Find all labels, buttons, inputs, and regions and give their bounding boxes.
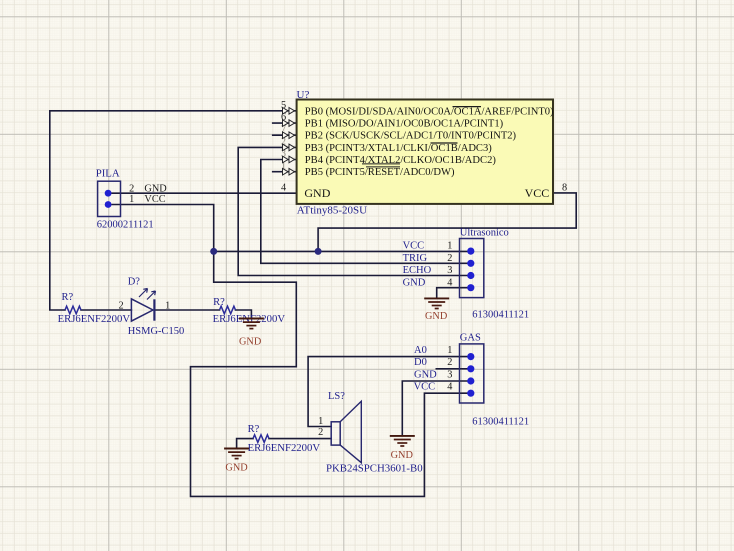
svg-text:3: 3 xyxy=(447,369,452,380)
svg-text:1: 1 xyxy=(447,241,452,252)
svg-text:4: 4 xyxy=(281,183,286,194)
pin circle GAS-1 xyxy=(467,353,474,360)
svg-text:D?: D? xyxy=(128,276,141,287)
svg-text:HSMG-C150: HSMG-C150 xyxy=(128,326,185,337)
connector GAS 61300411121 xyxy=(414,333,530,428)
pin circle US-1 xyxy=(467,248,474,255)
connector Ultrasonico 61300411121 xyxy=(403,227,530,320)
svg-text:VCC: VCC xyxy=(144,194,165,205)
pin circle US-3 xyxy=(467,272,474,279)
svg-text:GND: GND xyxy=(403,277,426,288)
svg-text:VCC: VCC xyxy=(525,186,550,200)
svg-text:PKB24SPCH3601-B0: PKB24SPCH3601-B0 xyxy=(326,463,423,475)
IC U? ATtiny85-20SU body xyxy=(297,89,554,217)
connector PILA xyxy=(96,167,168,230)
resistor R3 (speaker) ERJ6ENF2200V xyxy=(248,424,321,454)
IC overline RESET pin PB5 xyxy=(366,166,400,168)
pin circle GAS-4 xyxy=(467,390,474,397)
junction node VCC-2 xyxy=(315,248,322,255)
svg-text:1: 1 xyxy=(165,301,170,312)
wire GAS A0 pin1 to speaker pin1 xyxy=(308,357,471,427)
svg-text:GND: GND xyxy=(425,311,448,322)
IC pin rows text xyxy=(304,106,554,200)
svg-text:PB0 (MOSI/DI/SDA/AIN0/OC0A/OC1: PB0 (MOSI/DI/SDA/AIN0/OC0A/OC1A/AREF/PCI… xyxy=(305,106,554,117)
wire VCC bus to Ultrasonico VCC pin1 xyxy=(214,250,471,252)
svg-text:4: 4 xyxy=(447,382,452,393)
svg-text:U?: U? xyxy=(297,89,310,101)
svg-text:GND: GND xyxy=(304,186,330,200)
svg-text:61300411121: 61300411121 xyxy=(472,416,529,427)
IC overline OC1A pin PB0 xyxy=(453,106,482,108)
LED D? HSMG-C150 xyxy=(119,276,185,337)
ground GND (GAS) xyxy=(390,436,415,461)
pin circle GAS-3 xyxy=(467,377,474,384)
svg-text:PB2 (SCK/USCK/SCL/ADC1/T0/INT0: PB2 (SCK/USCK/SCL/ADC1/T0/INT0/PCINT2) xyxy=(305,131,517,142)
svg-text:LS?: LS? xyxy=(328,391,345,402)
wire stub PB5 xyxy=(273,171,297,173)
svg-text:2: 2 xyxy=(447,357,452,368)
svg-text:A0: A0 xyxy=(414,345,427,356)
svg-text:8: 8 xyxy=(562,183,567,194)
LED arrows xyxy=(139,289,156,300)
wire PB0 net to LED row xyxy=(50,111,297,310)
wire stub PB1 xyxy=(273,122,297,124)
IC pin clock arrows PB0-PB5 xyxy=(283,108,295,176)
svg-text:62000211121: 62000211121 xyxy=(97,220,154,231)
svg-text:GAS: GAS xyxy=(460,333,481,344)
svg-text:TRIG: TRIG xyxy=(403,253,428,264)
svg-text:Ultrasonico: Ultrasonico xyxy=(460,227,509,238)
ground GND (speaker R3) xyxy=(224,449,249,474)
wire GAS GND pin3 to ground xyxy=(402,381,471,435)
pin circle US-2 xyxy=(467,260,474,267)
svg-text:R?: R? xyxy=(248,424,260,435)
svg-text:4: 4 xyxy=(447,277,452,288)
resistor R1 (LED left) ERJ6ENF2200V xyxy=(58,292,131,325)
svg-text:3: 3 xyxy=(447,265,452,276)
wire IC VCC pin8 path xyxy=(318,193,576,252)
svg-text:ERJ6ENF2200V: ERJ6ENF2200V xyxy=(248,442,321,454)
wire speaker pin2 to R3 xyxy=(269,438,331,440)
svg-text:1: 1 xyxy=(318,416,323,427)
svg-text:2: 2 xyxy=(119,301,124,312)
pin circle PILA-2 xyxy=(105,190,112,197)
svg-text:PB3 (PCINT3/XTAL1/CLKI/OC1B/AD: PB3 (PCINT3/XTAL1/CLKI/OC1B/ADC3) xyxy=(305,143,492,154)
svg-text:D0: D0 xyxy=(414,357,427,368)
IC overline OC1B pin PB3 xyxy=(431,142,458,144)
svg-text:2: 2 xyxy=(318,427,323,438)
svg-text:ERJ6ENF2200V: ERJ6ENF2200V xyxy=(58,313,131,325)
pin circle GAS-2 xyxy=(467,365,474,372)
svg-text:GND: GND xyxy=(239,337,262,348)
svg-text:PB1 (MISO/DO/AIN1/OC0B/OC1A/PC: PB1 (MISO/DO/AIN1/OC0B/OC1A/PCINT1) xyxy=(305,119,504,130)
svg-text:PB4 (PCINT4/XTAL2/CLKO/OC1B/AD: PB4 (PCINT4/XTAL2/CLKO/OC1B/ADC2) xyxy=(305,155,497,166)
svg-text:2: 2 xyxy=(447,253,452,264)
ground GND (Ultrasonico) xyxy=(424,298,449,322)
wire stub GAS D0 pin2 xyxy=(436,368,471,370)
svg-text:61300411121: 61300411121 xyxy=(472,309,529,320)
svg-text:GND: GND xyxy=(144,184,167,195)
svg-text:VCC: VCC xyxy=(403,241,425,252)
svg-text:ECHO: ECHO xyxy=(403,265,432,276)
wire VCC down-branch to GAS VCC xyxy=(191,251,471,496)
IC underline XTAL2 pin PB4 xyxy=(362,163,400,165)
wire stub PB2 xyxy=(273,134,297,136)
svg-text:R?: R? xyxy=(62,292,74,303)
ground GND (R2) xyxy=(239,319,264,348)
svg-text:PB5 (PCINT5/RESET/ADC0/DW): PB5 (PCINT5/RESET/ADC0/DW) xyxy=(305,167,455,178)
svg-text:R?: R? xyxy=(213,297,225,308)
wire PILA GND to IC GND pin4 xyxy=(112,192,297,194)
wire PB3 to Ultrasonico ECHO pin3 xyxy=(238,147,471,275)
pin circle US-4 xyxy=(467,284,474,291)
svg-text:GND: GND xyxy=(225,463,248,474)
speaker LS? PKB24SPCH3601-B0 xyxy=(318,391,423,474)
wire PILA VCC to junction xyxy=(112,205,214,252)
svg-text:ATtiny85-20SU: ATtiny85-20SU xyxy=(297,204,367,216)
wire LED to R2 xyxy=(155,309,220,311)
wire R2 to GND xyxy=(236,310,252,318)
pin circle PILA-1 xyxy=(105,201,112,208)
resistor R2 (LED right) ERJ6ENF2200V xyxy=(213,297,286,325)
svg-text:PILA: PILA xyxy=(96,167,120,179)
wire Ultrasonico GND pin4 to ground xyxy=(437,288,471,298)
svg-text:GND: GND xyxy=(414,369,437,380)
wire R3 to ground xyxy=(237,439,253,448)
svg-text:GND: GND xyxy=(391,450,414,461)
wire LED row segment R1 to LED xyxy=(81,309,131,311)
svg-text:1: 1 xyxy=(447,345,452,356)
svg-text:1: 1 xyxy=(129,194,134,205)
wire PB4 to Ultrasonico TRIG pin2 xyxy=(261,160,471,264)
svg-text:2: 2 xyxy=(129,184,134,195)
junction node VCC-1 xyxy=(210,248,217,255)
svg-text:VCC: VCC xyxy=(414,382,436,393)
